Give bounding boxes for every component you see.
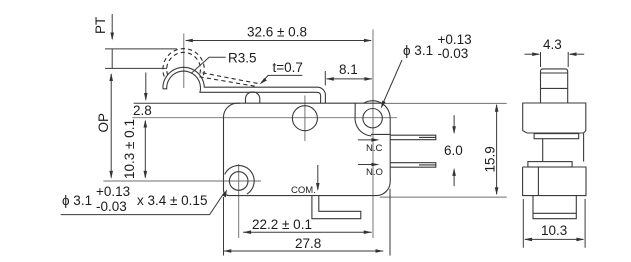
lower body inner line [537,167,539,196]
bottom-left hole vertical centerline (22.2 left ext) [238,164,240,238]
2.8 lower arrowhead [144,93,148,101]
svg-text:6.0: 6.0 [444,143,463,158]
15.9 dimension [496,105,498,194]
dashed curl outer arc (free position) [163,49,204,77]
svg-text:ϕ 3.1: ϕ 3.1 [62,193,92,208]
COM terminal [312,196,361,219]
operating position line [105,67,167,69]
middle connector right [583,133,585,162]
svg-text:15.9: 15.9 [483,146,498,172]
N.O arrow + label [358,164,378,166]
vertical centerline through curl (32.6 left ext) [183,34,185,89]
svg-text:PT: PT [93,17,108,34]
svg-text:10.3 ± 0.1: 10.3 ± 0.1 [122,119,137,179]
N.C terminal [391,135,436,140]
6.0 dimension [453,115,455,186]
long vertical centerline through right hole (ext for 32.6/8.1/22.2) [372,30,374,239]
svg-text:+0.13: +0.13 [438,32,472,47]
PT arrowhead [110,33,114,41]
plunger pin dome [246,92,260,104]
body outline [223,101,390,196]
middle connector left [542,139,544,162]
bottom-left hole horizontal centerline [103,180,261,182]
t=0.7 leader [262,75,303,82]
svg-text:-0.03: -0.03 [438,46,469,61]
svg-text:N.O: N.O [366,167,383,178]
top-right hole boss inner arc [355,103,372,135]
svg-text:N.C: N.C [366,143,383,154]
plunger circle vertical centerline [304,96,306,142]
2.8 upper arrow line [145,73,147,100]
svg-text:+0.13: +0.13 [96,184,130,199]
svg-text:2.8: 2.8 [133,103,152,118]
dashed lever top line [203,73,260,84]
OP dimension line [110,74,112,178]
15.9 top extension line [384,102,507,104]
OP top arrowhead [109,73,113,81]
svg-text:10.3: 10.3 [541,223,567,238]
tab2 (N.O terminal edge) [528,162,572,167]
32.6 dimension [186,40,371,42]
27.8 dimension [224,189,391,256]
2.8 top line [134,102,240,104]
dashed lever bottom line [200,77,257,87]
OP bottom arrowhead [109,171,113,179]
free position line [105,48,177,50]
svg-text:x 3.4 ± 0.15: x 3.4 ± 0.15 [137,193,207,208]
22.2 dimension [243,231,372,233]
N.C arrow + label [358,139,378,141]
svg-text:8.1: 8.1 [339,62,358,77]
svg-text:22.2 ± 0.1: 22.2 ± 0.1 [252,217,312,232]
svg-text:R3.5: R3.5 [228,51,257,66]
R3.5 leader [191,57,226,73]
10.3 top arrowhead [144,120,148,128]
10.3 dimension [523,199,585,248]
10.3 bottom arrowhead [144,171,148,179]
top edge continues under boss bump [364,102,382,104]
N.O terminal [391,163,436,168]
plunger [541,69,568,103]
bottom-left mounting hole [229,172,248,191]
upper body [523,103,586,133]
bottom-left hole boss arc [225,166,255,195]
svg-text:t=0.7: t=0.7 [273,60,303,75]
lever solid outline (curl outer arc + strip top + right bend) [163,67,326,103]
svg-text:COM.: COM. [291,185,316,196]
plunger circle [292,106,317,131]
lower body [523,167,586,196]
foot / COM edge [533,196,576,219]
8.1 dimension [325,71,372,85]
svg-text:ϕ 3.1: ϕ 3.1 [403,43,433,58]
top-right mounting hole [363,109,382,128]
svg-text:OP: OP [96,113,111,133]
svg-text:32.6 ± 0.8: 32.6 ± 0.8 [247,25,307,40]
PT arrow line [111,14,113,39]
10.3 dimension line [144,121,146,178]
projection line body bottom to side view [380,196,507,198]
tab1 (N.C terminal edge) [534,134,579,139]
4.3 dimension [525,52,585,67]
horizontal centerline through plunger circle and right hole [132,117,397,119]
svg-text:27.8: 27.8 [295,236,321,251]
lever inner contour (strip bottom + curl inner arc) [163,71,321,103]
dashed curl inner arc [167,52,201,75]
svg-text:4.3: 4.3 [543,37,562,52]
PT/OP connector [111,49,113,69]
svg-text:-0.03: -0.03 [96,199,127,214]
boss bottom connector line [371,133,390,135]
